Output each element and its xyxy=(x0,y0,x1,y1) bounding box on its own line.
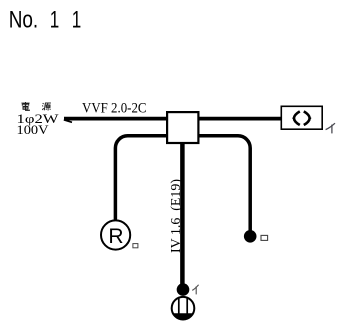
svg-text:No.: No. xyxy=(9,6,39,33)
label ro (katakana) for lamp receptacle xyxy=(133,244,138,248)
power source label 電源 xyxy=(21,102,51,111)
label i (katakana) for ceiling rose xyxy=(326,123,335,133)
label ro (katakana) for switch xyxy=(261,235,268,240)
svg-text:1: 1 xyxy=(50,6,60,33)
junction box (outlet box) xyxy=(167,112,198,143)
wire left branch to lamp receptacle xyxy=(115,136,166,221)
switch ro (dot) xyxy=(244,230,257,243)
wire center branch (conduit) xyxy=(180,144,185,286)
label i (katakana) for switch xyxy=(192,285,198,295)
ceiling rose parens ( ) xyxy=(294,111,300,125)
svg-text:VVF 2.0-2C: VVF 2.0-2C xyxy=(82,101,147,117)
source feed wire xyxy=(64,117,166,121)
svg-text:100V: 100V xyxy=(17,122,50,137)
svg-text:IV 1.6 (E19): IV 1.6 (E19) xyxy=(169,179,184,253)
switch i (dot) xyxy=(177,283,190,296)
kanji 電 xyxy=(21,102,29,110)
wire right branch to switch ro xyxy=(199,136,250,231)
kanji 源 xyxy=(42,103,51,111)
svg-text:1: 1 xyxy=(72,6,82,33)
ceiling rose (hook ceiling) body xyxy=(281,106,322,129)
source arrow barb xyxy=(64,120,72,123)
svg-text:R: R xyxy=(108,225,123,248)
wire junction box to ceiling rose xyxy=(199,117,281,121)
title No. 11 xyxy=(9,6,82,33)
outlet (receptacle) symbol xyxy=(172,297,195,320)
lamp receptacle R xyxy=(101,220,130,249)
